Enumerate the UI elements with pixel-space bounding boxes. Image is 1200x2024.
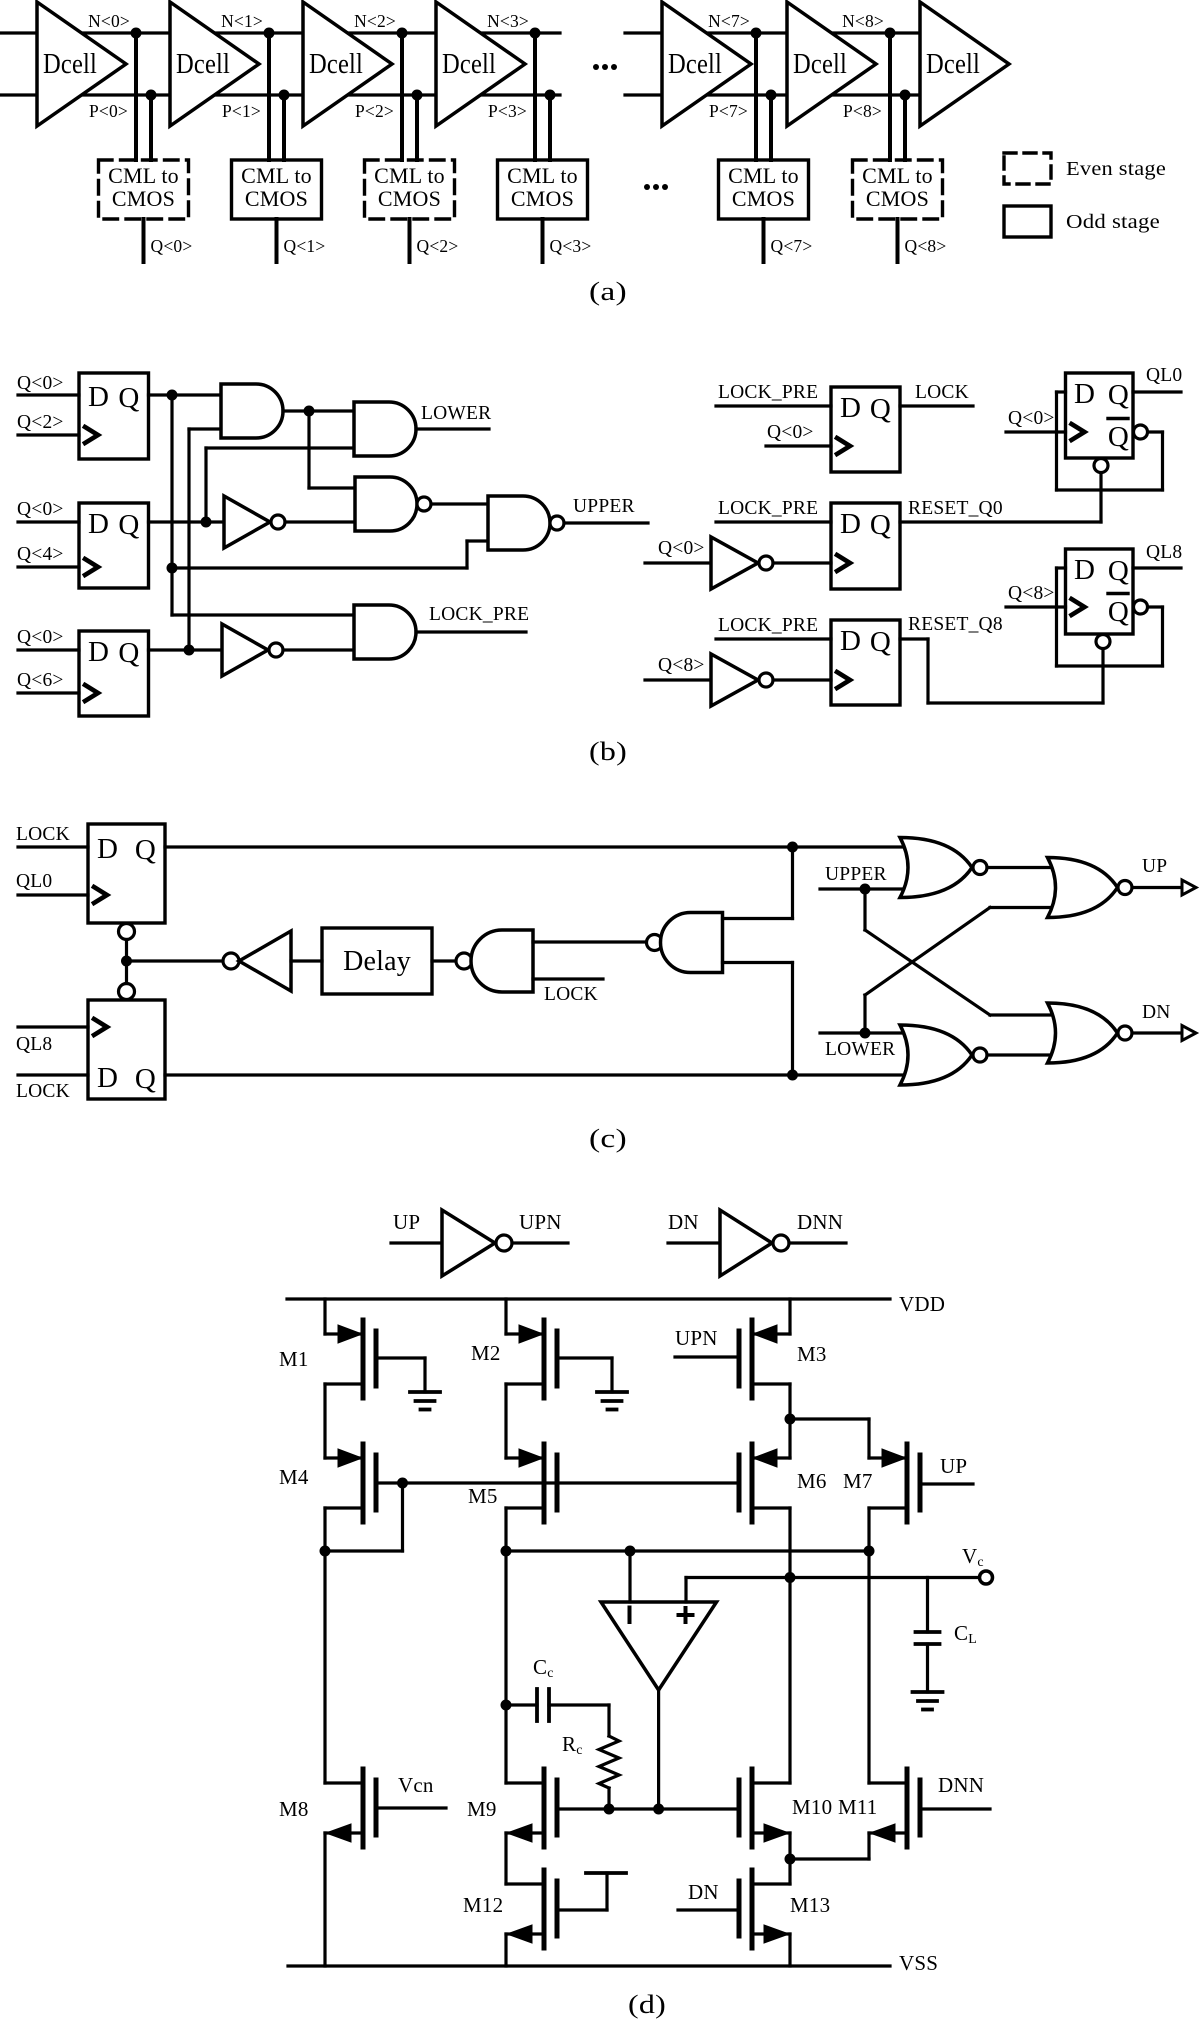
svg-text:CMOS: CMOS bbox=[511, 186, 574, 211]
node P<2> junction and wire to CML box 2 bbox=[412, 90, 423, 161]
svg-text:Dcell: Dcell bbox=[793, 49, 847, 80]
svg-text:Odd stage: Odd stage bbox=[1066, 212, 1160, 233]
bubble DFF10 set input (top) bbox=[119, 984, 135, 1000]
wire DFF2 Q output to inverter INV1 bbox=[149, 517, 225, 528]
wire INV3 output to DFF5 clock bbox=[773, 561, 831, 564]
wire reset node between DFF9 and DFF10 bbox=[121, 940, 223, 984]
D flip-flop DFF9 (LOCK/QL0) in (c) bbox=[88, 824, 165, 923]
wire Q<8> input to inverter INV4 bbox=[645, 678, 711, 681]
svg-text:Q<0>: Q<0> bbox=[17, 499, 64, 520]
svg-text:Q: Q bbox=[870, 509, 891, 541]
svg-text:VDD: VDD bbox=[899, 1292, 945, 1316]
wire LOCK_PRE input to DFF4 D bbox=[716, 404, 831, 407]
wire Q<3> output stub bbox=[541, 219, 545, 262]
svg-text:RESET_Q0: RESET_Q0 bbox=[908, 498, 1003, 519]
svg-text:M10: M10 bbox=[792, 1795, 832, 1819]
svg-text:Even stage: Even stage bbox=[1066, 159, 1166, 180]
transistor M4 bbox=[325, 1444, 376, 1522]
svg-text:N<2>: N<2> bbox=[354, 11, 396, 31]
wire LOCK input to DFF10 D bbox=[18, 1073, 88, 1076]
wire LOWER output bbox=[416, 427, 489, 430]
svg-text:QL0: QL0 bbox=[16, 871, 52, 892]
D flip-flop DFF10 (QL8/LOCK) in (c) bbox=[88, 1000, 165, 1099]
wire DN stub to M13 gate bbox=[678, 1908, 739, 1911]
resistor Rc bbox=[599, 1736, 619, 1809]
transistor M6 bbox=[739, 1444, 790, 1522]
transistor M5 bbox=[506, 1444, 557, 1522]
capacitor CL bbox=[916, 1632, 940, 1692]
wire RESET_Q0 from DFF5 Q to DFF6 reset bbox=[900, 473, 1101, 522]
svg-text:Q: Q bbox=[1108, 421, 1129, 453]
wire Cc branch and capacitor Cc bbox=[506, 1689, 609, 1736]
D flip-flop DFF1 (Q<0>/Q<2>) in (b) bbox=[79, 373, 149, 459]
wire M13 source to VSS bbox=[788, 1934, 791, 1966]
svg-text:Dcell: Dcell bbox=[668, 49, 722, 80]
svg-text:UP: UP bbox=[1142, 856, 1167, 877]
wire M8 source down to VSS bbox=[323, 1833, 326, 1966]
ground symbol at M2 gate bbox=[597, 1392, 627, 1410]
svg-text:N<3>: N<3> bbox=[487, 11, 529, 31]
svg-text:Q<0>: Q<0> bbox=[151, 236, 193, 256]
svg-text:Dcell: Dcell bbox=[176, 49, 230, 80]
wire UPPER cross branch to DN gate bbox=[865, 889, 1055, 1015]
svg-text:Q<0>: Q<0> bbox=[658, 538, 705, 559]
svg-text:N<8>: N<8> bbox=[842, 11, 884, 31]
Dcell buffer stage 8 bbox=[787, 2, 876, 126]
svg-text:DNN: DNN bbox=[938, 1773, 984, 1797]
svg-text:LOWER: LOWER bbox=[825, 1039, 895, 1060]
wire UPPER output bbox=[564, 521, 648, 524]
wire Q<0> to DFF6 clock bbox=[1006, 430, 1066, 433]
wire M1 gate to ground bbox=[376, 1358, 425, 1392]
svg-text:Q<1>: Q<1> bbox=[284, 236, 326, 256]
svg-text:M5: M5 bbox=[468, 1484, 498, 1508]
wire NOR2 output to OR2 bbox=[987, 1053, 1058, 1056]
wire LOCK input to DFF9 D bbox=[18, 845, 88, 848]
wire M7 drain down to M11 bbox=[867, 1508, 870, 1783]
Dcell buffer stage 3 bbox=[436, 2, 525, 126]
D flip-flop DFF4 (LOCK generator) bbox=[831, 387, 900, 472]
svg-text:Q: Q bbox=[1108, 555, 1129, 587]
svg-text:Q: Q bbox=[135, 834, 156, 866]
inverter INV2 bbox=[222, 624, 283, 676]
svg-text:P<7>: P<7> bbox=[709, 101, 748, 121]
svg-text:CML to: CML to bbox=[241, 163, 312, 188]
NOR gate NOR1 bbox=[900, 838, 987, 898]
wire M1 drain to M4 source bbox=[323, 1384, 326, 1458]
svg-text:D: D bbox=[97, 833, 118, 865]
wire Q<0> to DFF4 clock bbox=[766, 444, 831, 447]
svg-text:Q<0>: Q<0> bbox=[17, 627, 64, 648]
svg-text:D: D bbox=[840, 625, 861, 657]
svg-text:M6: M6 bbox=[797, 1469, 827, 1493]
wire M6 drain down to M10 through Vc node bbox=[785, 1508, 796, 1783]
wire AND1 lower input from DFF3 Q bbox=[189, 429, 221, 650]
wire M3 drain node to M6 and M7 bbox=[785, 1384, 870, 1458]
svg-text:D: D bbox=[88, 636, 109, 668]
inverter DN to DNN bbox=[668, 1210, 846, 1276]
svg-text:D: D bbox=[840, 508, 861, 540]
svg-text:LOCK_PRE: LOCK_PRE bbox=[429, 604, 529, 625]
wire UPN stub to M3 gate bbox=[675, 1355, 739, 1358]
svg-text:Q: Q bbox=[870, 626, 891, 658]
wire op-amp non-inverting input to Vc line bbox=[686, 1578, 980, 1603]
AND gate AND1 bbox=[221, 384, 283, 438]
node P<1> junction and wire to CML box 1 bbox=[279, 90, 290, 161]
wire INV4 output to DFF7 clock bbox=[773, 678, 831, 681]
svg-text:M9: M9 bbox=[467, 1797, 497, 1821]
OR gate OR2 (DN) with output bubble bbox=[1048, 1003, 1133, 1063]
svg-text:CML to: CML to bbox=[728, 163, 799, 188]
svg-text:CML to: CML to bbox=[374, 163, 445, 188]
wire INV2 output to AND3 bbox=[283, 648, 354, 651]
svg-text:UP: UP bbox=[940, 1454, 967, 1478]
svg-text:DNN: DNN bbox=[797, 1210, 843, 1234]
wire LOCK_PRE input to DFF5 D bbox=[716, 520, 831, 523]
wire P rail segment right (a) bbox=[625, 93, 930, 96]
ground symbol below CL bbox=[913, 1692, 943, 1710]
wire M4 drain diode connection and down to M8 bbox=[320, 1483, 403, 1783]
svg-text:Q<8>: Q<8> bbox=[905, 236, 947, 256]
transistor M3 bbox=[739, 1320, 790, 1398]
CML to CMOS converter stage 1 (odd solid) bbox=[232, 160, 322, 219]
transistor M11 bbox=[869, 1769, 920, 1847]
wire Delay input from NAND5 bbox=[432, 959, 456, 962]
wire M12 gate stub with tee bbox=[557, 1873, 626, 1910]
wire DFF3 Q output to inverter INV2 bbox=[149, 645, 223, 656]
svg-text:P<0>: P<0> bbox=[89, 101, 128, 121]
svg-text:Q<7>: Q<7> bbox=[771, 236, 813, 256]
svg-text:QL0: QL0 bbox=[1146, 365, 1182, 386]
svg-text:Q: Q bbox=[870, 393, 891, 425]
svg-text:CML to: CML to bbox=[108, 163, 179, 188]
inverter INV5 (left facing) with output bubble bbox=[223, 931, 291, 991]
AND gate AND2 (LOWER) bbox=[354, 402, 416, 456]
node N<7> junction and wire to CML box 7 bbox=[751, 28, 762, 161]
svg-text:M4: M4 bbox=[279, 1465, 309, 1489]
svg-text:LOCK: LOCK bbox=[544, 984, 598, 1005]
svg-text:Delay: Delay bbox=[343, 946, 411, 977]
Delay block bbox=[322, 928, 432, 994]
svg-text:(c): (c) bbox=[589, 1124, 627, 1153]
wire Q<8> output stub bbox=[896, 219, 900, 262]
wire M12 source to VSS bbox=[504, 1934, 507, 1966]
NAND gate NAND1 bbox=[355, 477, 431, 531]
CML to CMOS converter stage 3 (odd solid) bbox=[498, 160, 588, 219]
inverter INV4 bbox=[711, 654, 773, 706]
ellipsis dots on rails (a) bbox=[593, 64, 617, 70]
node P<0> junction and wire to CML box 0 bbox=[146, 90, 157, 161]
transistor M12 bbox=[506, 1870, 557, 1948]
svg-text:P<3>: P<3> bbox=[488, 101, 527, 121]
svg-text:DN: DN bbox=[668, 1210, 699, 1234]
OR gate OR1 (UP) with output bubble bbox=[1048, 858, 1133, 918]
legend odd stage solid box bbox=[1004, 206, 1051, 237]
transistor M10 bbox=[739, 1769, 790, 1847]
svg-text:N<7>: N<7> bbox=[708, 11, 750, 31]
svg-text:RESET_Q8: RESET_Q8 bbox=[908, 614, 1003, 635]
svg-text:Q<8>: Q<8> bbox=[658, 655, 705, 676]
svg-text:QL8: QL8 bbox=[16, 1034, 52, 1055]
wire M7 gate stub UP bbox=[920, 1482, 973, 1485]
D flip-flop DFF7 (RESET_Q8 generator) bbox=[831, 620, 900, 705]
D flip-flop DFF2 (Q<0>/Q<4>) in (b) bbox=[79, 503, 149, 588]
wire LOWER cross branch to UP gate bbox=[865, 908, 1055, 1034]
wire QL0 output bbox=[1133, 390, 1181, 393]
wire input Q<0> to DFF3 D bbox=[18, 648, 79, 651]
wire DFF6 Qbar feedback to D bbox=[1057, 392, 1163, 490]
svg-text:QL8: QL8 bbox=[1146, 542, 1182, 563]
node N<3> junction and wire to CML box 3 bbox=[530, 28, 541, 161]
svg-text:Q: Q bbox=[118, 382, 139, 414]
CML to CMOS converter stage 8 (even dashed) bbox=[853, 160, 943, 219]
wire Q<7> output stub bbox=[762, 219, 766, 262]
NAND gate NAND6 (left facing) bbox=[647, 913, 723, 973]
inverter UP to UPN bbox=[391, 1210, 568, 1276]
svg-text:Dcell: Dcell bbox=[926, 49, 980, 80]
svg-text:M13: M13 bbox=[790, 1893, 830, 1917]
CML to CMOS converter stage 2 (even dashed) bbox=[365, 160, 455, 219]
svg-text:DN: DN bbox=[1142, 1002, 1171, 1023]
wire INV5 input from Delay bbox=[291, 959, 322, 962]
wire NAND5 upper input from NAND6 output bbox=[533, 940, 647, 943]
svg-text:LOCK_PRE: LOCK_PRE bbox=[718, 498, 818, 519]
svg-text:D: D bbox=[1074, 378, 1095, 410]
svg-text:Q: Q bbox=[118, 637, 139, 669]
node N<0> junction and wire to CML box 0 bbox=[131, 28, 142, 161]
wire LOCK_PRE output bbox=[416, 630, 526, 633]
svg-text:P<8>: P<8> bbox=[843, 101, 882, 121]
svg-text:CMOS: CMOS bbox=[378, 186, 441, 211]
svg-text:VSS: VSS bbox=[899, 1951, 938, 1975]
wire CL branch from Vc line bbox=[926, 1578, 929, 1633]
D flip-flop DFF5 (RESET_Q0 generator) bbox=[831, 503, 900, 589]
svg-text:Dcell: Dcell bbox=[442, 49, 496, 80]
svg-text:Q: Q bbox=[1108, 596, 1129, 628]
svg-text:UPPER: UPPER bbox=[825, 864, 887, 885]
output pin symbol DN bbox=[1182, 1026, 1196, 1041]
AND gate AND3 (LOCK_PRE) bbox=[354, 605, 416, 659]
bubble DFF8 reset input (bottom) bbox=[1096, 635, 1110, 649]
inverter INV3 bbox=[711, 537, 773, 589]
wire UPPER input line (c) bbox=[820, 884, 910, 895]
svg-text:M3: M3 bbox=[797, 1342, 827, 1366]
wire P rail segment left (a) bbox=[0, 93, 560, 96]
svg-text:Q: Q bbox=[1108, 379, 1129, 411]
bubble DFF6 reset input (bottom) bbox=[1094, 459, 1108, 473]
svg-text:Dcell: Dcell bbox=[309, 49, 363, 80]
bubble DFF6 inverted output Qbar bbox=[1134, 425, 1148, 439]
ground symbol at M1 gate bbox=[410, 1392, 440, 1410]
wire M10 source node to M11 source and M13 drain bbox=[785, 1833, 870, 1884]
svg-text:CML to: CML to bbox=[862, 163, 933, 188]
transistor M9 bbox=[506, 1769, 557, 1847]
wire Q<1> output stub bbox=[275, 219, 279, 262]
wire QL0 input to DFF9 clock bbox=[18, 893, 88, 896]
D flip-flop DFF8 (QL8 latch) bbox=[1066, 549, 1134, 634]
D flip-flop DFF3 (Q<0>/Q<6>) in (b) bbox=[79, 631, 149, 716]
svg-text:M1: M1 bbox=[279, 1347, 309, 1371]
transistor M13 bbox=[739, 1870, 790, 1948]
wire long branch to NAND2 lower input bbox=[172, 541, 488, 568]
svg-text:D: D bbox=[840, 392, 861, 424]
wire M9 source down to M12 drain bbox=[504, 1833, 507, 1884]
wire NAND6 upper input from top rail bbox=[723, 847, 793, 919]
transistor M7 bbox=[869, 1444, 920, 1522]
svg-text:Q<8>: Q<8> bbox=[1008, 583, 1055, 604]
op-amp U1 bbox=[601, 1602, 717, 1690]
svg-text:(a): (a) bbox=[589, 277, 627, 306]
svg-text:LOCK: LOCK bbox=[915, 382, 969, 403]
wire NOR1 output to OR1 bbox=[987, 866, 1058, 869]
wire LOCK stub to NAND5 lower input bbox=[533, 977, 603, 980]
wire input Q<6> to DFF3 clock bbox=[18, 691, 79, 694]
node N<1> junction and wire to CML box 1 bbox=[264, 28, 275, 161]
wire UP output bbox=[1132, 886, 1182, 889]
svg-text:M2: M2 bbox=[471, 1341, 501, 1365]
VSS rail bbox=[288, 1964, 890, 1967]
wire DN output bbox=[1132, 1031, 1182, 1034]
wire M1 source to VDD bbox=[323, 1299, 326, 1334]
wire DFF9 Q output top rail to NOR1 bbox=[165, 842, 910, 853]
svg-text:M12: M12 bbox=[463, 1893, 503, 1917]
wire op-amp output to M9/M10 gate line bbox=[657, 1690, 660, 1809]
legend even stage dashed box bbox=[1004, 153, 1051, 184]
svg-text:M7: M7 bbox=[843, 1469, 873, 1493]
terminal Vc bbox=[980, 1571, 993, 1584]
inverter INV1 bbox=[224, 496, 285, 548]
wire LOWER input line (c) bbox=[820, 1028, 910, 1039]
output pin symbol UP bbox=[1182, 880, 1196, 895]
wire LOCK_PRE input to DFF7 D bbox=[716, 637, 831, 640]
svg-text:CMOS: CMOS bbox=[732, 186, 795, 211]
transistor M2 bbox=[506, 1320, 557, 1398]
svg-text:M11: M11 bbox=[838, 1795, 878, 1819]
wire M3 source to VDD bbox=[788, 1299, 791, 1334]
Dcell buffer stage 1 bbox=[170, 2, 259, 126]
wire Q<0> output stub bbox=[142, 219, 146, 262]
wire input Q<4> to DFF2 clock bbox=[18, 565, 79, 568]
wire op-amp inverting input bbox=[628, 1551, 631, 1602]
svg-text:LOWER: LOWER bbox=[421, 403, 491, 424]
svg-text:Dcell: Dcell bbox=[43, 49, 97, 80]
wire input Q<0> to DFF1 D bbox=[18, 393, 79, 396]
VDD power rail bbox=[287, 1297, 890, 1300]
svg-text:Q: Q bbox=[135, 1063, 156, 1095]
wire AND2 lower input from DFF2 Q bbox=[206, 448, 354, 522]
wire INV1 output to NAND1 bbox=[285, 520, 355, 523]
node N<8> junction and wire to CML box 8 bbox=[885, 28, 896, 161]
CML to CMOS converter stage 0 (even dashed) bbox=[99, 160, 189, 219]
svg-text:CMOS: CMOS bbox=[245, 186, 308, 211]
wire M2 source to VDD bbox=[504, 1299, 507, 1334]
wire DFF8 Qbar feedback to D bbox=[1057, 568, 1163, 666]
svg-text:UP: UP bbox=[393, 1210, 420, 1234]
svg-text:N<0>: N<0> bbox=[88, 11, 130, 31]
wire M2 gate to ground bbox=[557, 1358, 612, 1392]
ellipsis dots between CML boxes (a) bbox=[644, 184, 668, 190]
wire M2 drain to M5 source bbox=[504, 1384, 507, 1458]
wire N rail segment right (a) bbox=[625, 31, 930, 34]
svg-text:Q<0>: Q<0> bbox=[1008, 408, 1055, 429]
svg-text:Q: Q bbox=[118, 509, 139, 541]
wire LOCK output bbox=[900, 404, 973, 407]
bubble DFF8 inverted output Qbar bbox=[1134, 600, 1148, 614]
wire NAND1 output to NAND2 bbox=[431, 502, 488, 505]
node N<2> junction and wire to CML box 2 bbox=[397, 28, 408, 161]
svg-text:(b): (b) bbox=[589, 737, 627, 766]
wire M9/M10 common gate line bbox=[557, 1804, 739, 1815]
wire QL8 input to DFF10 clock bbox=[18, 1025, 88, 1028]
wire N rail segment left (a) bbox=[0, 31, 560, 34]
svg-text:Q<0>: Q<0> bbox=[767, 422, 814, 443]
node P<3> junction and wire to CML box 3 bbox=[545, 90, 556, 161]
svg-text:Q<4>: Q<4> bbox=[17, 544, 64, 565]
svg-text:Q<2>: Q<2> bbox=[17, 412, 64, 433]
svg-text:D: D bbox=[1074, 554, 1095, 586]
wire Q<2> output stub bbox=[408, 219, 412, 262]
NAND gate NAND5 (left facing) bbox=[456, 930, 533, 992]
svg-text:D: D bbox=[88, 381, 109, 413]
svg-text:UPN: UPN bbox=[519, 1210, 562, 1234]
wire NAND6 lower input from bottom rail bbox=[723, 963, 793, 1076]
svg-text:(d): (d) bbox=[628, 1990, 666, 2019]
wire AND1 output to AND2 and NAND1 bbox=[283, 406, 355, 489]
wire RESET_Q8 from DFF7 Q to DFF8 reset bbox=[900, 639, 1103, 703]
svg-text:N<1>: N<1> bbox=[221, 11, 263, 31]
wire QL8 output bbox=[1133, 566, 1181, 569]
svg-text:D: D bbox=[88, 508, 109, 540]
svg-text:CML to: CML to bbox=[507, 163, 578, 188]
NAND gate NAND2 (UPPER) bbox=[488, 496, 564, 550]
svg-text:LOCK: LOCK bbox=[16, 1081, 70, 1102]
Dcell buffer stage 0 bbox=[37, 2, 126, 126]
svg-text:Q<0>: Q<0> bbox=[17, 373, 64, 394]
wire input Q<0> to DFF2 D bbox=[18, 520, 79, 523]
svg-text:LOCK_PRE: LOCK_PRE bbox=[718, 615, 818, 636]
svg-text:Q<6>: Q<6> bbox=[17, 670, 64, 691]
svg-text:LOCK: LOCK bbox=[16, 824, 70, 845]
transistor M1 bbox=[325, 1320, 376, 1398]
wire Q<8> to DFF8 clock bbox=[1006, 605, 1066, 608]
svg-text:M8: M8 bbox=[279, 1797, 309, 1821]
wire common gate line M4 M5 M6 bbox=[376, 1478, 739, 1489]
wire drain bus line A to M7/M11 column bbox=[506, 1546, 875, 1557]
bubble DFF9 reset input (bottom) bbox=[119, 924, 135, 940]
svg-text:Q<2>: Q<2> bbox=[417, 236, 459, 256]
wire Q<0> input to inverter INV3 bbox=[645, 561, 711, 564]
wire vertical from DFF1 Q down to AND3 input bbox=[167, 395, 355, 615]
wire DFF1 Q output to AND1 bbox=[149, 390, 222, 401]
svg-text:UPPER: UPPER bbox=[573, 496, 635, 517]
NOR gate NOR2 bbox=[900, 1025, 987, 1085]
transistor M8 bbox=[325, 1769, 376, 1847]
wire M11 gate stub DNN bbox=[920, 1807, 990, 1810]
D flip-flop DFF6 (QL0 latch) bbox=[1066, 373, 1134, 458]
svg-text:LOCK_PRE: LOCK_PRE bbox=[718, 382, 818, 403]
node P<8> junction and wire to CML box 8 bbox=[900, 90, 911, 161]
wire M5 drain node line down to M9 bbox=[501, 1508, 512, 1783]
Dcell buffer stage 2 bbox=[303, 2, 392, 126]
CML to CMOS converter stage 7 (odd solid) bbox=[719, 160, 809, 219]
wire M8 gate stub Vcn bbox=[376, 1806, 446, 1809]
svg-text:P<1>: P<1> bbox=[222, 101, 261, 121]
svg-text:DN: DN bbox=[688, 1880, 719, 1904]
svg-text:D: D bbox=[97, 1062, 118, 1094]
wire input Q<2> to DFF1 clock bbox=[18, 433, 79, 436]
svg-text:CMOS: CMOS bbox=[866, 186, 929, 211]
Dcell buffer stage 7 bbox=[662, 2, 751, 126]
